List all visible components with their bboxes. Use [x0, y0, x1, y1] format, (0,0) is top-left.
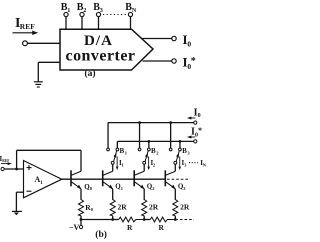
- node ladder node 1: [111, 218, 114, 221]
- dotted continuation B3..BN (a): [103, 14, 126, 16]
- label IREF input current (a): [15, 16, 35, 31]
- node junction I0* bus stage 3: [179, 140, 182, 143]
- transistor Q1 collector arm: [103, 171, 113, 175]
- wire op-amp - input to ground: [16, 192, 23, 211]
- transistor Q0 emitter arm: [71, 182, 81, 190]
- wire BN to converter box: [130, 17, 132, 30]
- svg-text:0: 0: [187, 39, 191, 48]
- wire switch 3 left contact to I0 bus: [170, 123, 172, 149]
- resistor 2R stage 3: [173, 200, 178, 216]
- terminal I0* (a): [172, 59, 176, 63]
- terminal -V: [79, 225, 82, 228]
- terminal IREF (b): [1, 167, 4, 170]
- resistor 2R stage 1: [110, 200, 115, 216]
- wire switch 1 left contact to I0 bus: [107, 123, 109, 149]
- resistor R0: [79, 200, 84, 216]
- transistor Q3 collector arm: [165, 171, 175, 175]
- wire feedback down to Q0 collector: [80, 150, 82, 171]
- svg-text:converter: converter: [66, 47, 136, 64]
- arrow current I1: [116, 157, 119, 171]
- terminal switch 3 left contact: [169, 148, 172, 151]
- svg-text:(a): (a): [85, 68, 96, 79]
- label BN (a): [125, 2, 136, 14]
- terminal switch 2 right contact B2: [148, 148, 151, 151]
- wire switch 2 pole to Q2 collector: [143, 164, 145, 171]
- wire ladder dashed continuation: [175, 219, 194, 221]
- arrow current I3: [178, 157, 181, 171]
- terminal switch 2 pole: [143, 161, 146, 164]
- svg-text:R: R: [159, 223, 165, 232]
- wire base bus from op-amp output: [62, 178, 166, 180]
- terminal B2 (a): [80, 12, 84, 16]
- svg-text:*: *: [191, 56, 196, 67]
- label I0 (a): [183, 32, 192, 49]
- label IN: [200, 159, 207, 168]
- wire -V stub: [80, 220, 82, 226]
- wire IREF to converter box: [27, 42, 60, 44]
- svg-text:R: R: [127, 223, 133, 232]
- label B3 (a): [93, 2, 103, 14]
- label I1: [119, 159, 125, 168]
- label IREF input (b): [0, 155, 10, 163]
- D/A converter block U1: [60, 29, 153, 70]
- wire feedback top horizontal: [17, 149, 81, 151]
- transistor Q1 emitter arm: [103, 182, 113, 190]
- terminal BN (a): [128, 12, 132, 16]
- wire I0 output (a): [142, 38, 172, 40]
- wire 2R to ladder node 3: [174, 216, 176, 220]
- arrow I0 current (b): [187, 117, 195, 120]
- wire switch 3 pole to Q3 collector: [174, 164, 176, 171]
- label B3: [182, 147, 190, 155]
- svg-text:(b): (b): [95, 229, 107, 240]
- transistor Q2 emitter arm: [134, 182, 144, 190]
- label B1 (a): [61, 2, 71, 14]
- label I0* (a): [183, 54, 196, 71]
- wire switch 1 right contact to I0* bus: [116, 141, 118, 148]
- svg-text:*: *: [198, 126, 202, 135]
- wire base bus dashed continuation: [167, 178, 188, 180]
- wire B1 to converter box: [65, 17, 67, 30]
- transistor Q2 base bar: [133, 170, 135, 186]
- wire Q2 emitter down: [143, 189, 145, 200]
- wire ladder node0 to node1: [81, 219, 113, 221]
- transistor Q3 base bar: [164, 170, 166, 186]
- wire B2 to converter box: [81, 17, 83, 30]
- label A1: [35, 175, 44, 186]
- wire I0 collector bus: [108, 122, 194, 124]
- svg-text:2R: 2R: [118, 202, 128, 211]
- wire 2R to ladder node 2: [143, 216, 145, 220]
- resistor 2R stage 2: [142, 200, 147, 216]
- wire Q1 emitter down: [112, 189, 114, 200]
- terminal I0 (b): [194, 121, 197, 124]
- wire IREF to op-amp + input: [4, 168, 23, 170]
- svg-text:−V: −V: [69, 223, 80, 232]
- ground (a): [34, 82, 43, 87]
- wire Q3 emitter down: [174, 189, 176, 200]
- label I0* (b): [191, 126, 202, 138]
- wire switch 2 right contact to I0* bus: [148, 141, 150, 148]
- terminal I0 (a): [172, 36, 176, 40]
- wire 2R to ladder node 1: [112, 216, 114, 220]
- switch S2 throw arm: [145, 151, 148, 162]
- label B1: [120, 147, 128, 155]
- node feedback junction on input wire: [15, 168, 18, 171]
- terminal I0* (b): [194, 140, 197, 143]
- label R0: [85, 203, 94, 212]
- label Q1: [115, 182, 123, 190]
- node junction I0 bus stage 2: [138, 121, 141, 124]
- arrow IREF direction (b): [1, 162, 12, 165]
- transistor Q3 emitter arm: [165, 182, 175, 190]
- terminal switch 1 right contact B1: [116, 148, 119, 151]
- wire switch 3 right contact to I0* bus: [179, 141, 181, 148]
- label + input: [27, 165, 32, 170]
- label B2 (a): [77, 2, 87, 14]
- resistor R ladder 2: [144, 217, 175, 222]
- label - input: [27, 190, 32, 192]
- label Q2: [147, 182, 155, 190]
- op-amp A1: [24, 161, 62, 198]
- wire switch 1 pole to Q1 collector: [112, 164, 114, 171]
- terminal switch 2 left contact: [138, 148, 141, 151]
- label I3: [182, 159, 188, 168]
- arrow IREF direction (a): [13, 31, 39, 35]
- wire I0* output (a): [143, 60, 172, 62]
- label B2: [151, 147, 159, 155]
- terminal switch 3 pole: [174, 161, 177, 164]
- label I0 (b): [194, 107, 201, 119]
- wire converter box to ground (a): [38, 62, 60, 81]
- node ladder node 0: [80, 218, 83, 221]
- transistor Q0 collector arm: [71, 171, 81, 175]
- switch S1 throw arm: [114, 151, 117, 162]
- arrow current I2: [147, 157, 150, 171]
- wire I0* bus: [117, 140, 193, 142]
- svg-text:2R: 2R: [180, 202, 190, 211]
- wire switch 2 left contact to I0 bus: [139, 123, 141, 149]
- terminal IREF (a): [23, 41, 28, 46]
- resistor R ladder 1: [113, 217, 145, 222]
- label Q3: [178, 182, 186, 190]
- terminal switch 3 right contact B3: [179, 148, 182, 151]
- wire R0 to -V node: [80, 216, 82, 220]
- node ladder node 3: [174, 218, 177, 221]
- terminal B3 (a): [96, 12, 100, 16]
- svg-text:0: 0: [198, 113, 201, 119]
- terminal switch 1 left contact: [107, 148, 110, 151]
- transistor Q1 base bar: [102, 170, 104, 186]
- transistor Q2 collector arm: [134, 171, 144, 175]
- switch S3 throw arm: [176, 151, 179, 162]
- label Q0: [84, 183, 92, 191]
- dotted continuation I3..IN: [189, 162, 198, 164]
- wire Q0 emitter down: [80, 189, 82, 200]
- label I2: [150, 159, 156, 168]
- ground op-amp - input (b): [12, 211, 22, 215]
- terminal B1 (a): [64, 12, 68, 16]
- node ladder node 2: [143, 218, 146, 221]
- node junction I0* bus stage 2: [147, 140, 150, 143]
- arrow I0* current (b): [187, 136, 195, 139]
- svg-text:2R: 2R: [149, 202, 159, 211]
- wire B3 to converter box: [98, 17, 100, 30]
- svg-text:REF: REF: [20, 22, 35, 31]
- transistor Q0 base bar: [70, 170, 72, 186]
- wire feedback up from input node: [16, 150, 18, 169]
- svg-text:REF: REF: [2, 159, 10, 163]
- terminal switch 1 pole: [111, 161, 114, 164]
- node junction I0 bus stage 3: [169, 121, 172, 124]
